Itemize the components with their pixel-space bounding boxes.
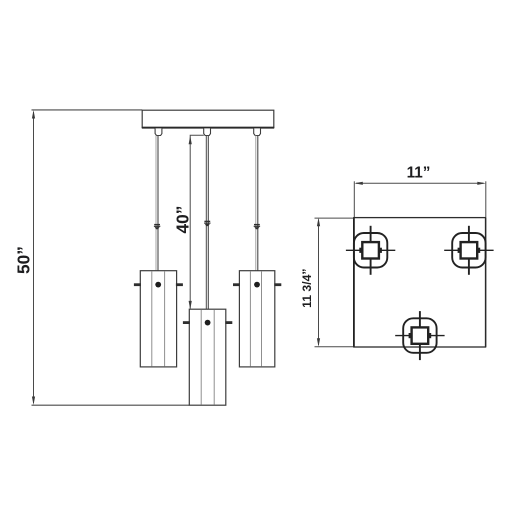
extension line top (canopy level) <box>32 109 143 111</box>
cord grip right <box>254 128 261 135</box>
cord connector left <box>154 224 160 229</box>
cord right <box>256 135 258 270</box>
cord connector right <box>254 224 260 229</box>
shade middle screw dot <box>205 320 211 326</box>
shade right screw dot <box>254 282 260 288</box>
canopy front view <box>142 110 274 128</box>
shade left (front view cylinder) <box>140 271 176 367</box>
shade left side tabs <box>134 283 183 286</box>
shade right (front view cylinder) <box>239 271 274 367</box>
svg-text:11”: 11” <box>407 165 431 182</box>
mounting plate left edge <box>353 218 355 347</box>
extension line bottom (middle shade bottom level) <box>32 404 190 406</box>
dimension 11in horizontal line <box>354 181 486 217</box>
dimension 11 3/4in vertical line <box>315 218 354 347</box>
cord left <box>156 135 158 270</box>
mounting hole bottom-middle <box>395 311 444 360</box>
svg-text:50”: 50” <box>14 246 34 274</box>
svg-text:11 3/4”: 11 3/4” <box>300 269 314 308</box>
svg-text:40”: 40” <box>172 206 192 234</box>
dimension 50in vertical line <box>32 110 35 405</box>
shade right side tabs <box>233 283 281 286</box>
cord middle (rod) <box>206 135 208 309</box>
shade middle side tabs <box>183 321 232 324</box>
shade middle (front view cylinder) <box>189 309 226 405</box>
mounting hole top-right <box>444 226 493 275</box>
shade left screw dot <box>155 282 161 288</box>
cord grip middle <box>204 128 211 135</box>
mounting plate right edge <box>485 218 487 347</box>
dimension 40in line with jog <box>189 135 204 309</box>
cord connector middle <box>204 221 210 226</box>
mounting hole top-left <box>346 226 395 275</box>
mounting plate (canopy top view) <box>354 218 486 347</box>
cord grip left <box>155 128 162 135</box>
